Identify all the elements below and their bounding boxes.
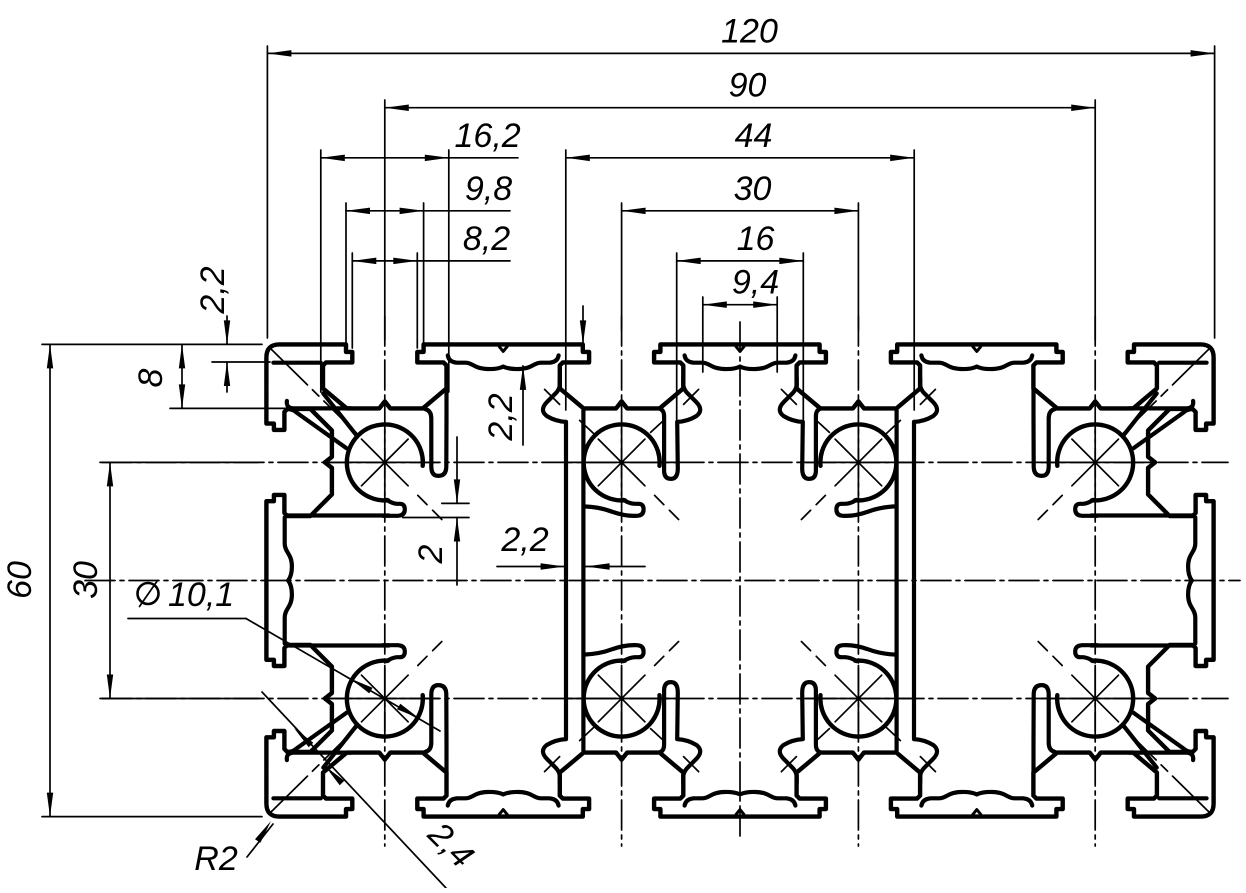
svg-text:2,2: 2,2 xyxy=(482,393,520,441)
horizontal centerline chain row 2 xyxy=(102,698,1228,700)
dimension 9,8 (slot surface opening) xyxy=(346,210,510,212)
thin edge lines, diagonals and center marks xyxy=(270,348,357,434)
dimension 16,2 (slot chamber width) xyxy=(321,157,518,159)
svg-text:2: 2 xyxy=(412,544,450,564)
dimension 60 (overall height) xyxy=(49,344,51,816)
internal single wall faces, flange undersides, frame lines xyxy=(273,361,320,365)
dimension 2,2 (column wall thickness) xyxy=(497,566,565,568)
svg-text:120: 120 xyxy=(721,12,778,50)
vertical centerline chain column 3 xyxy=(857,316,859,846)
screw boss bore circle B6 (diam 10,1) xyxy=(820,661,896,737)
svg-text:R2: R2 xyxy=(194,840,238,878)
svg-text:2,2: 2,2 xyxy=(194,266,232,314)
screw boss bore circle B1 (diam 10,1) xyxy=(347,424,423,500)
profile outer contour with T-slots, lips and chambers xyxy=(266,344,1213,816)
svg-text:90: 90 xyxy=(729,67,767,105)
dimension 44 (column outer span) xyxy=(566,157,914,159)
screw boss bore circle B8 (diam 10,1) xyxy=(1057,661,1133,737)
svg-text:2,2: 2,2 xyxy=(500,521,548,559)
dimension 9,4 (center recess width) xyxy=(703,304,777,306)
dimension diameter 10,1 (boss bore) with leader xyxy=(138,583,159,604)
dimension 90 (boss column span) xyxy=(385,107,1095,109)
center mark asterisk of boss B8 xyxy=(1041,698,1149,700)
center mark asterisk of boss B2 xyxy=(331,698,439,700)
vertical centerline chain column 1 xyxy=(384,316,386,846)
center mark asterisk of boss B4 xyxy=(568,698,676,700)
svg-text:16: 16 xyxy=(737,220,775,258)
svg-text:8,2: 8,2 xyxy=(463,220,510,258)
screw boss bore circle B5 (diam 10,1) xyxy=(820,424,896,500)
vertical centerline chain column 4 xyxy=(1094,316,1096,846)
svg-text:30: 30 xyxy=(734,170,772,208)
screw boss bore circle B7 (diam 10,1) xyxy=(1057,424,1133,500)
dimension 8 (slot depth) xyxy=(181,344,183,408)
dimension 30 (row pitch) xyxy=(109,462,111,698)
screw boss bore circle B2 (diam 10,1) xyxy=(347,661,423,737)
dimension 30 (column pitch) xyxy=(622,210,859,212)
dimension 2 (web finger thickness) xyxy=(456,437,458,503)
dimension 16 (center cavity width) xyxy=(677,260,804,262)
dimension 8,2 (slot lip opening) xyxy=(352,260,510,262)
dimension 2,4 (corner web thickness) with leader xyxy=(262,692,446,888)
dimension 2,2 (corner step depth) xyxy=(226,316,228,344)
svg-text:10,1: 10,1 xyxy=(168,576,234,614)
center mark asterisk of boss B1 xyxy=(331,461,439,463)
vertical centerline chain mid-width xyxy=(739,322,741,840)
screw boss bore circle B4 (diam 10,1) xyxy=(584,661,660,737)
screw boss bore circle B3 (diam 10,1) xyxy=(584,424,660,500)
center mark asterisk of boss B6 xyxy=(804,698,912,700)
center mark asterisk of boss B3 xyxy=(568,461,676,463)
vertical centerline chain column 2 xyxy=(621,316,623,846)
svg-text:30: 30 xyxy=(67,561,105,599)
center mark asterisk of boss B5 xyxy=(804,461,912,463)
dimension 120 (overall width) xyxy=(267,52,1214,54)
svg-text:9,4: 9,4 xyxy=(732,264,779,302)
svg-text:8: 8 xyxy=(132,368,170,387)
svg-text:16,2: 16,2 xyxy=(455,117,521,155)
dimension 2,2 (top wall thickness) xyxy=(582,306,584,344)
horizontal centerline chain mid-height xyxy=(85,580,1240,582)
svg-text:9,8: 9,8 xyxy=(465,170,512,208)
center mark asterisk of boss B7 xyxy=(1041,461,1149,463)
svg-text:44: 44 xyxy=(735,117,773,155)
horizontal centerline chain row 1 xyxy=(102,461,1228,463)
svg-text:60: 60 xyxy=(1,561,39,599)
